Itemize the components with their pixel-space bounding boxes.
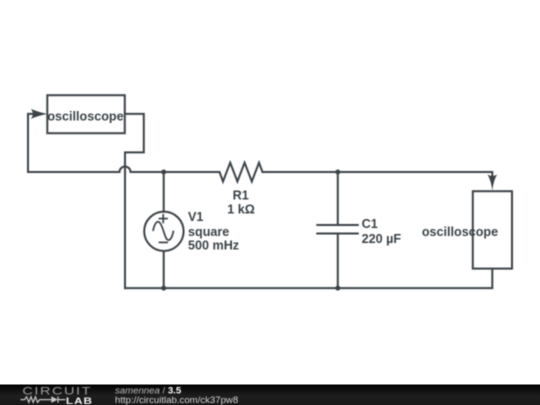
svg-text:R1: R1: [233, 189, 249, 203]
svg-text:LAB: LAB: [66, 396, 93, 405]
svg-text:square: square: [188, 225, 229, 239]
svg-text:500 mHz: 500 mHz: [188, 239, 239, 253]
svg-text:oscilloscope: oscilloscope: [47, 110, 123, 124]
svg-text:oscilloscope: oscilloscope: [422, 225, 498, 239]
svg-text:http://circuitlab.com/ck37pw8: http://circuitlab.com/ck37pw8: [115, 395, 238, 405]
svg-text:1 kΩ: 1 kΩ: [227, 203, 255, 217]
svg-text:V1: V1: [188, 210, 203, 224]
svg-text:220 µF: 220 µF: [362, 232, 402, 246]
svg-text:C1: C1: [362, 217, 378, 231]
